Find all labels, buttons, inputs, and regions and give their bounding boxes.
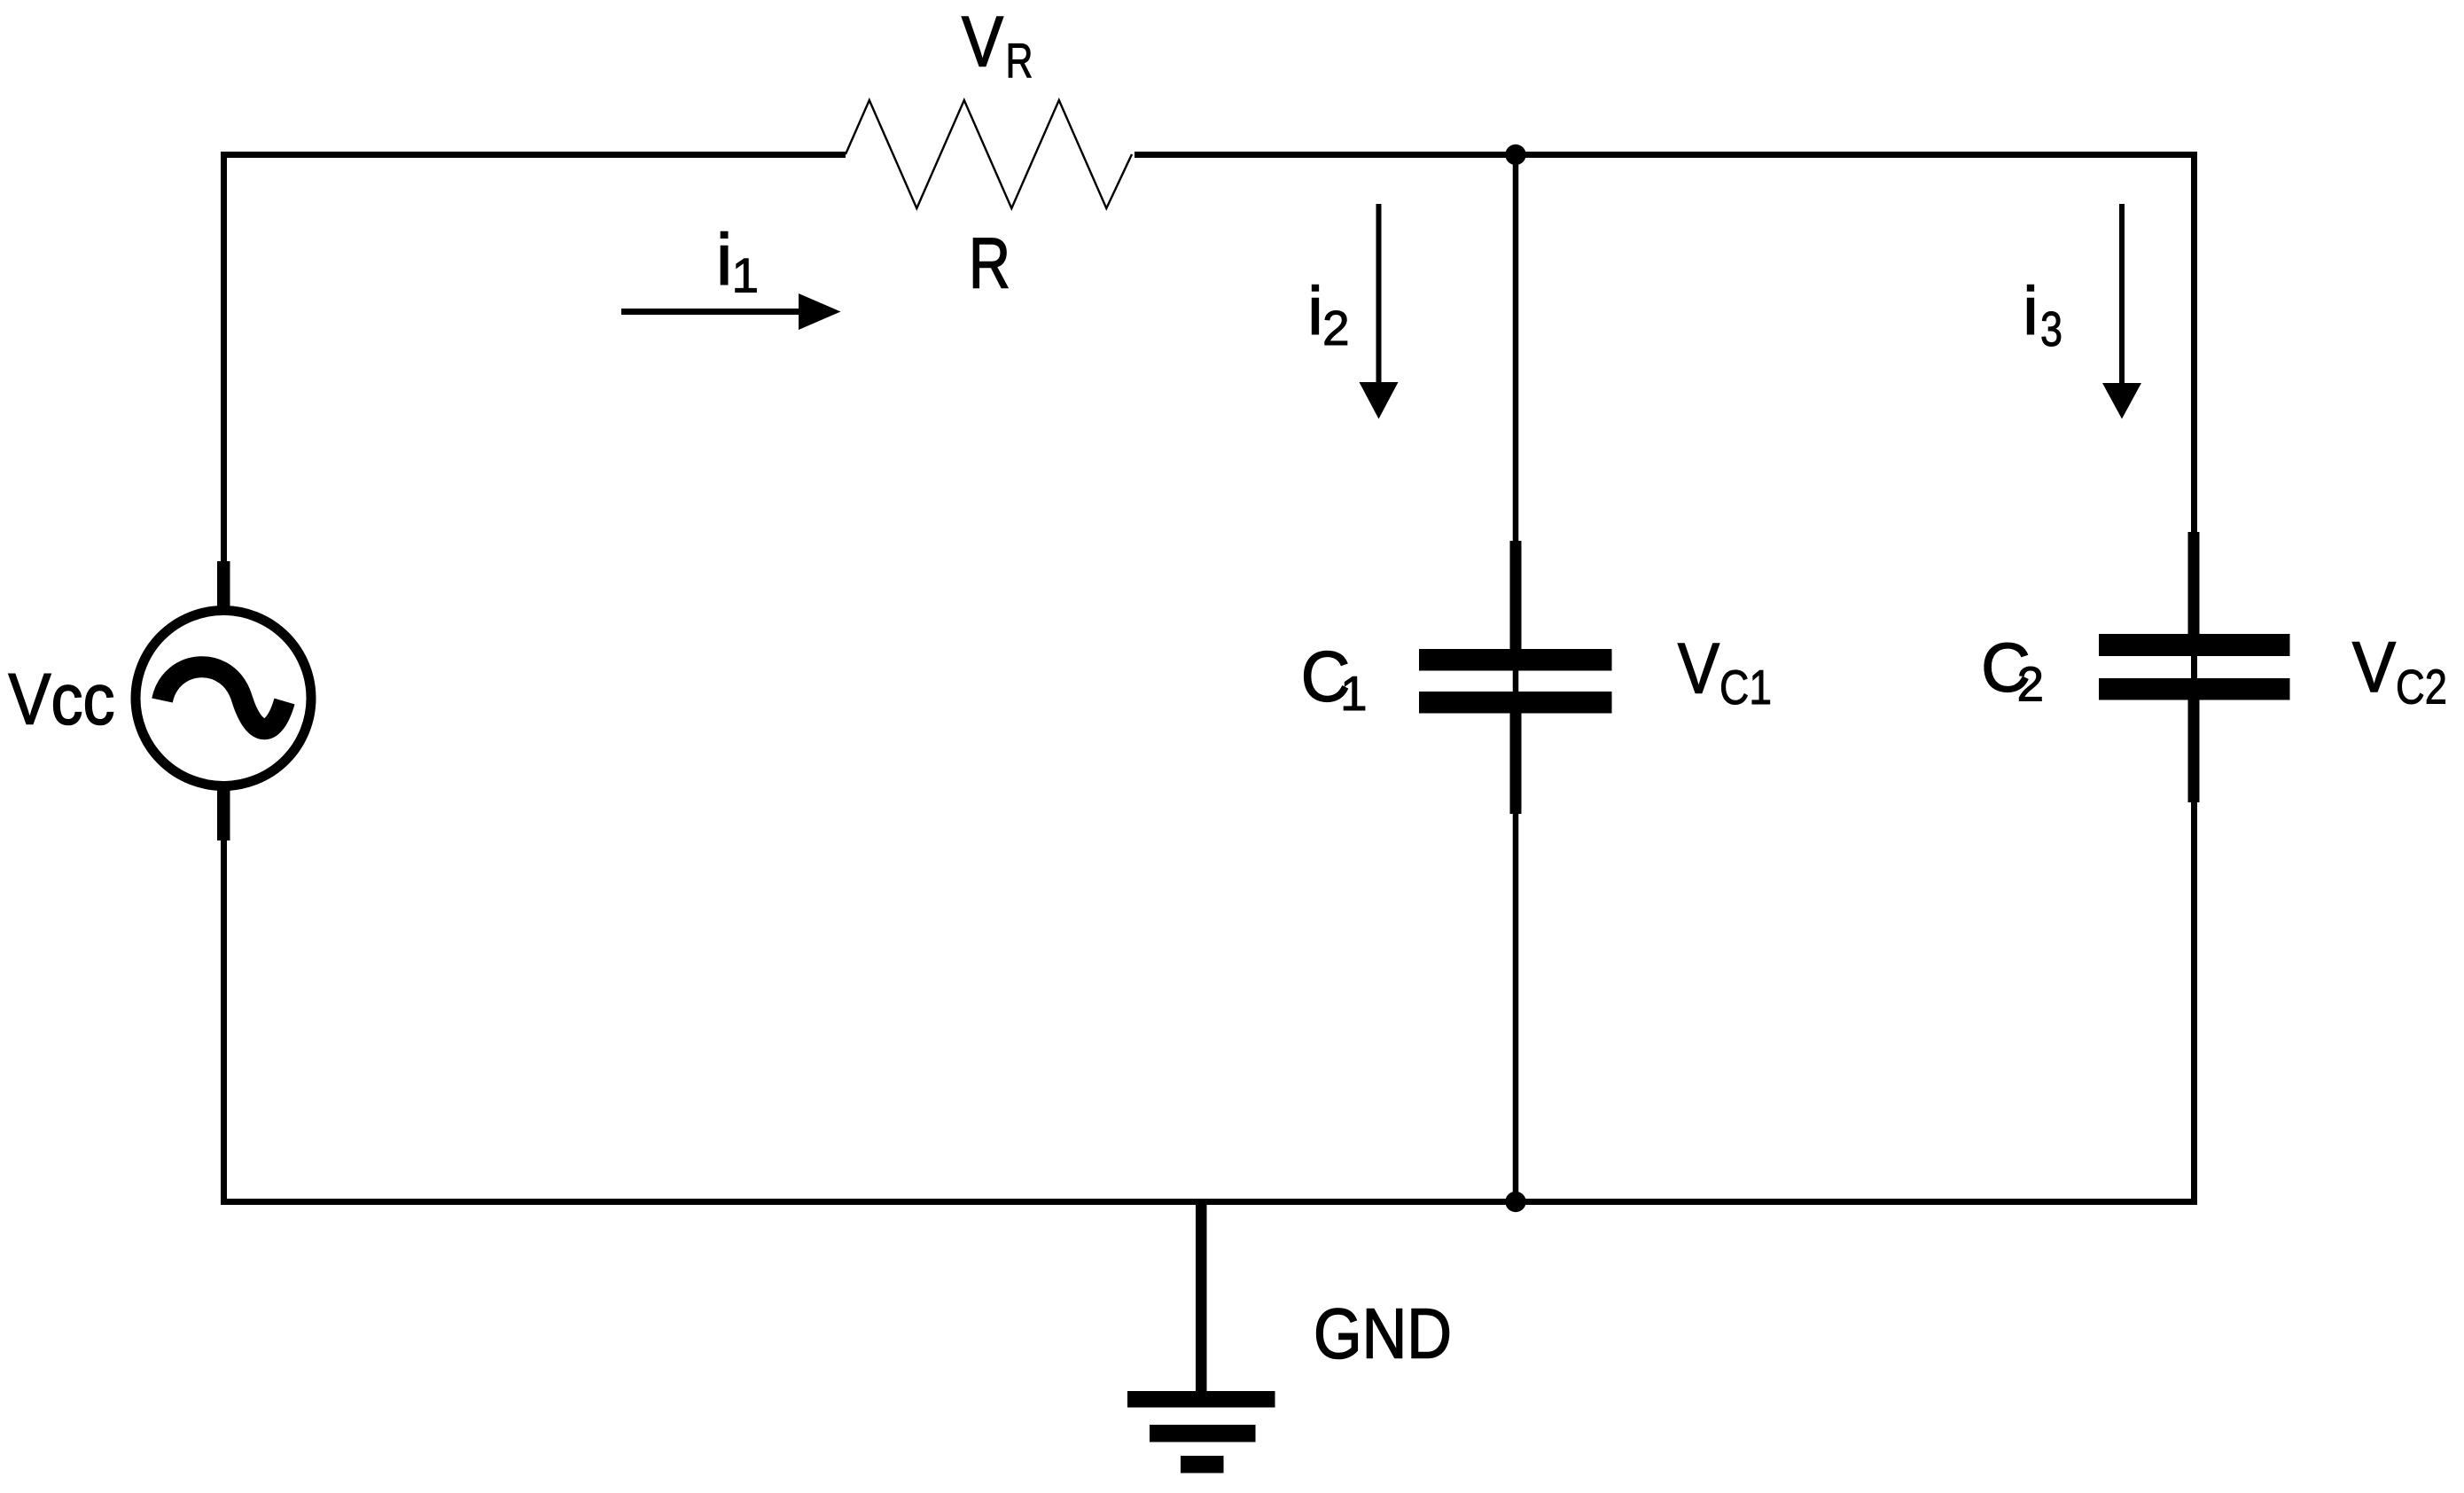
svg-text:i: i xyxy=(2023,274,2039,349)
svg-text:R: R xyxy=(1006,33,1033,88)
svg-text:2: 2 xyxy=(1322,301,1350,356)
svg-text:2: 2 xyxy=(2017,657,2045,712)
svg-text:1: 1 xyxy=(1340,666,1368,721)
svg-text:C1: C1 xyxy=(1719,660,1772,715)
svg-text:1: 1 xyxy=(732,248,760,303)
svg-text:R: R xyxy=(969,224,1010,304)
svg-text:i: i xyxy=(1308,274,1323,349)
svg-text:C2: C2 xyxy=(2396,660,2447,715)
svg-text:V: V xyxy=(2352,628,2396,707)
svg-text:i: i xyxy=(716,220,732,301)
svg-text:V: V xyxy=(962,3,1003,82)
svg-text:V: V xyxy=(1678,629,1719,709)
svg-text:3: 3 xyxy=(2040,301,2062,356)
svg-text:Vcc: Vcc xyxy=(9,660,115,740)
svg-text:GND: GND xyxy=(1314,1294,1452,1373)
